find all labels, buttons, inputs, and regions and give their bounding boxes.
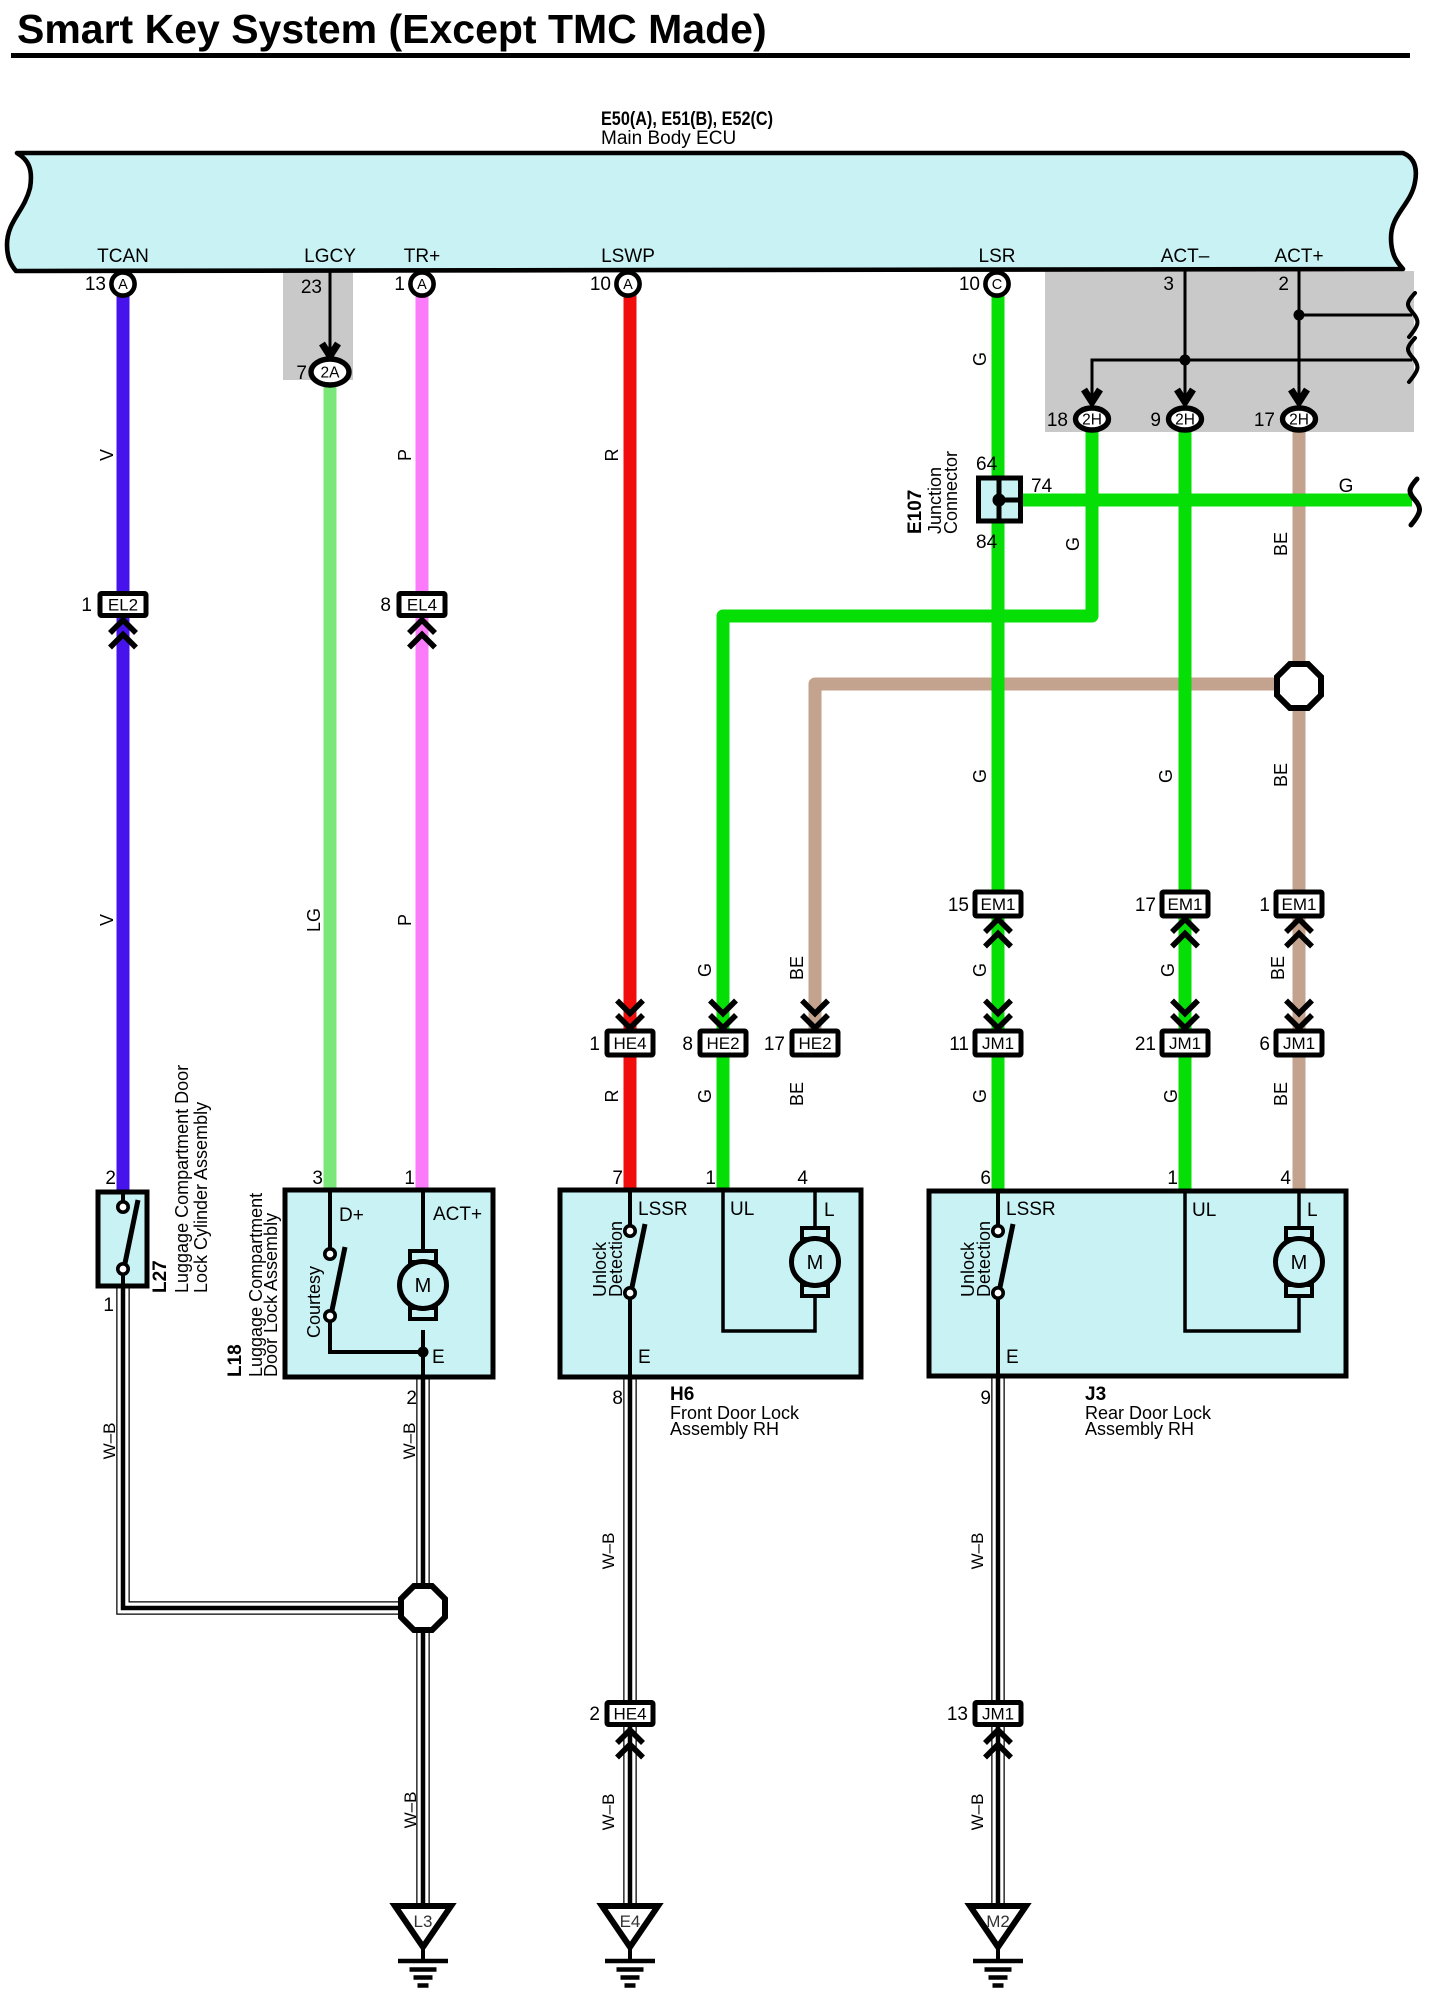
connector pin 13 circle A [111,272,134,295]
svg-text:2: 2 [589,1704,600,1725]
wire W-B from L18 through splice to ground L3 [416,1377,430,1905]
wire G LSR from ECU through E107 to J3 pin 6 [992,292,1005,1190]
ground L3 [395,1906,451,1947]
L18 motor leads [421,1192,425,1251]
svg-text:18: 18 [1047,410,1068,431]
svg-text:EL2: EL2 [108,596,138,615]
component L27 Luggage Compartment Door Lock Cylinder Assembly [98,1192,147,1286]
svg-text:G: G [1161,1089,1181,1103]
svg-text:Detection: Detection [606,1221,626,1297]
motor M in L18 [410,1251,436,1262]
svg-text:6: 6 [1259,1034,1270,1055]
svg-text:7: 7 [612,1168,623,1189]
gray highlight zone (ACT actuator branch) [1045,271,1414,432]
svg-text:23: 23 [301,277,322,298]
svg-text:G: G [970,352,990,366]
line ACT+ branch to page edge [1299,314,1412,317]
svg-text:1: 1 [404,1168,415,1189]
svg-text:21: 21 [1135,1034,1156,1055]
J3 motor lead [1297,1193,1301,1228]
svg-text:2: 2 [1278,274,1289,295]
svg-text:L27: L27 [150,1260,171,1293]
svg-text:ACT+: ACT+ [433,1204,482,1225]
unlock detection switch in J3 [998,1224,1013,1297]
svg-text:BE: BE [1271,1082,1291,1106]
svg-text:EM1: EM1 [981,895,1016,914]
svg-text:W–B: W–B [599,1794,618,1831]
junction node on ACT+ branch [1294,310,1305,321]
svg-text:13: 13 [85,274,106,295]
svg-text:1: 1 [394,274,405,295]
svg-text:W–B: W–B [100,1423,119,1460]
svg-text:Courtesy: Courtesy [304,1266,324,1338]
svg-text:E: E [638,1347,651,1368]
svg-text:BE: BE [1271,763,1291,787]
wire W-B from H6 through HE4 to ground E4 [623,1377,637,1905]
svg-text:2: 2 [406,1388,417,1409]
connector pin 10 circle A [616,272,639,295]
svg-text:UL: UL [730,1199,754,1220]
svg-text:LSWP: LSWP [601,246,655,267]
connector JM1 pin 6 [1286,1015,1312,1028]
wire P TR+ from ECU to L18 ACT+ [416,292,429,1189]
wire G junction connector 74 branch to page edge [1020,494,1412,507]
svg-text:Assembly RH: Assembly RH [670,1419,779,1439]
svg-text:6: 6 [980,1168,991,1189]
svg-text:3: 3 [1163,274,1174,295]
svg-text:W–B: W–B [968,1794,987,1831]
connector JM1 pin 11 [985,1015,1011,1028]
connector HE4 pin 2 [607,1703,653,1725]
svg-text:EL4: EL4 [407,596,437,615]
connector HE2 pin 8 [710,1015,736,1028]
svg-text:9: 9 [1150,410,1161,431]
svg-text:17: 17 [1135,895,1156,916]
line ACT branch to 2H pin 18 [1092,360,1412,403]
svg-text:A: A [417,277,427,293]
courtesy switch in L18 [330,1247,345,1320]
arrow into 2A [322,344,338,357]
svg-text:JM1: JM1 [1283,1034,1315,1053]
ground M2 [970,1906,1026,1947]
svg-text:A: A [623,277,633,293]
svg-text:G: G [970,1089,990,1103]
svg-text:LG: LG [304,908,324,932]
splice octagon S2 (W-B) [401,1586,445,1630]
connector pin 1 circle A [410,272,433,295]
ground E4 [602,1906,658,1947]
L18 courtesy switch lead [328,1192,332,1249]
svg-text:L3: L3 [414,1912,433,1931]
svg-text:E4: E4 [620,1912,641,1931]
page continuation squiggle on G branch [1410,479,1420,525]
svg-text:7: 7 [296,363,307,384]
connector pin 10 circle C [985,272,1008,295]
svg-text:TR+: TR+ [404,246,440,267]
svg-text:2H: 2H [1082,412,1102,429]
svg-text:V: V [97,449,117,461]
svg-text:64: 64 [976,454,998,475]
svg-text:A: A [118,277,128,293]
svg-text:LSR: LSR [979,246,1016,267]
line ACT+ pin 2 drop [1298,271,1301,403]
svg-text:R: R [602,1090,622,1103]
svg-text:L18: L18 [225,1344,246,1377]
svg-text:G: G [1063,537,1083,551]
svg-text:JM1: JM1 [1169,1034,1201,1053]
svg-text:3: 3 [312,1168,323,1189]
svg-text:UL: UL [1192,1200,1216,1221]
connector JM1 pin 21 [1172,1015,1198,1028]
svg-text:G: G [1339,476,1354,497]
Main Body ECU band E50(A) E51(B) E52(C) [7,153,1416,271]
svg-text:1: 1 [1167,1168,1178,1189]
svg-text:1: 1 [705,1168,716,1189]
connector EM1 pin 17 [1162,892,1208,916]
J3 unlock detection switch lead [996,1193,1000,1226]
connector oval 2H pin 9 [1169,408,1202,430]
svg-text:TCAN: TCAN [97,246,149,267]
H6 UL internal wiring [723,1192,815,1331]
svg-text:E50(A), E51(B), E52(C): E50(A), E51(B), E52(C) [601,109,773,130]
svg-text:2H: 2H [1175,412,1195,429]
svg-text:EM1: EM1 [1282,895,1317,914]
svg-text:Lock Cylinder Assembly: Lock Cylinder Assembly [191,1102,211,1293]
motor M in J3 [1286,1228,1312,1239]
svg-text:J3: J3 [1085,1384,1106,1405]
svg-text:8: 8 [380,595,391,616]
svg-text:W–B: W–B [968,1533,987,1570]
svg-text:10: 10 [959,274,980,295]
svg-text:HE4: HE4 [613,1034,646,1053]
H6 unlock detection switch lead [628,1192,632,1226]
svg-text:G: G [695,963,715,977]
svg-text:LSSR: LSSR [638,1199,688,1220]
svg-text:Connector: Connector [941,451,961,534]
svg-text:E: E [432,1347,445,1368]
svg-text:EM1: EM1 [1168,895,1203,914]
svg-text:Assembly RH: Assembly RH [1085,1419,1194,1439]
J3 UL internal wiring [1185,1193,1299,1331]
svg-text:Main Body ECU: Main Body ECU [601,128,736,149]
svg-text:10: 10 [590,274,611,295]
svg-text:BE: BE [787,1082,807,1106]
svg-text:2H: 2H [1289,412,1309,429]
svg-text:LSSR: LSSR [1006,1199,1056,1220]
svg-text:1: 1 [81,595,92,616]
svg-text:M: M [1291,1252,1308,1274]
svg-text:BE: BE [787,956,807,980]
page continuation squiggle lower [1408,338,1418,382]
svg-text:74: 74 [1031,476,1053,497]
svg-text:17: 17 [1254,410,1275,431]
svg-text:2: 2 [105,1168,116,1189]
svg-text:M: M [807,1252,824,1274]
connector HE4 pin 1 [617,1015,643,1028]
svg-text:17: 17 [764,1034,785,1055]
arrow into 2H pin 18 [1084,390,1100,403]
svg-text:G: G [970,963,990,977]
wire W-B from J3 through JM1 to ground M2 [991,1376,1005,1905]
arrow into 2H pin 9 [1177,390,1193,403]
connector EL4 pin 8 [399,594,445,616]
svg-text:1: 1 [103,1295,114,1316]
wire G from 2H pin 18 to HE2 pin 8 (L-shape) [723,430,1092,1032]
svg-text:1: 1 [589,1034,600,1055]
splice octagon S1 (BE) [1277,664,1321,708]
svg-text:W–B: W–B [401,1792,420,1829]
wire LG from 2A connector to L18 D+ [324,384,337,1189]
svg-text:C: C [992,277,1002,293]
svg-text:W–B: W–B [599,1533,618,1570]
svg-text:G: G [1158,963,1178,977]
connector EL2 pin 1 [100,594,146,616]
connector EM1 pin 15 [975,892,1021,916]
svg-text:ACT+: ACT+ [1274,246,1323,267]
wire G from 2H pin 9 to J3 UL [1179,430,1192,1190]
svg-text:Luggage Compartment Door: Luggage Compartment Door [172,1065,192,1293]
wire BE vertical from 2H pin 17 to J3 pin 4 [1293,430,1306,1190]
svg-text:13: 13 [947,1704,968,1725]
line LGCY pin 23 drop [329,272,332,350]
wire W-B from L27 to splice octagon [123,1286,420,1608]
node E in L18 [418,1347,429,1358]
svg-text:HE2: HE2 [706,1034,739,1053]
svg-text:JM1: JM1 [982,1034,1014,1053]
unlock detection switch in H6 [630,1224,645,1297]
gray highlight zone (LGCY branch) [283,272,353,380]
svg-text:E: E [1006,1347,1019,1368]
svg-text:1: 1 [1259,895,1270,916]
wire BE horizontal from splice octagon to HE2 column [815,684,1299,1032]
H6 motor lead [813,1192,817,1228]
wire G below HE2 pin 8 into H6 UL [717,1052,730,1189]
svg-text:BE: BE [1268,956,1288,980]
connector JM1 pin 13 [975,1703,1021,1725]
svg-text:V: V [97,914,117,926]
svg-text:11: 11 [949,1034,969,1055]
svg-text:2A: 2A [321,365,341,382]
svg-text:8: 8 [612,1388,623,1409]
svg-text:Door Lock Assembly: Door Lock Assembly [261,1213,281,1377]
svg-text:4: 4 [797,1168,808,1189]
svg-text:R: R [602,449,622,462]
svg-text:BE: BE [1271,532,1291,556]
junction connector E107 [979,478,1021,521]
connector HE2 pin 17 [802,1015,828,1028]
svg-text:84: 84 [976,532,998,553]
svg-text:W–B: W–B [400,1423,419,1460]
svg-text:LGCY: LGCY [304,246,356,267]
wire R LSWP from ECU to H6 LSSR [624,292,637,1189]
arrow into 2H pin 17 [1291,390,1307,403]
svg-text:4: 4 [1280,1168,1291,1189]
svg-text:P: P [395,449,415,461]
svg-text:L: L [1307,1200,1318,1221]
wire V TCAN from ECU to L27 [117,292,130,1191]
svg-text:P: P [395,914,415,926]
component J3 Rear Door Lock Assembly RH [929,1191,1346,1376]
svg-text:M: M [415,1275,432,1297]
svg-text:H6: H6 [670,1384,694,1405]
svg-text:9: 9 [980,1388,991,1409]
svg-text:Smart Key System (Except TMC M: Smart Key System (Except TMC Made) [17,6,767,52]
svg-text:M2: M2 [986,1912,1010,1931]
svg-text:8: 8 [682,1034,693,1055]
connector oval 2H pin 17 [1283,408,1316,430]
page continuation squiggle upper [1408,293,1418,337]
svg-text:G: G [970,769,990,783]
svg-text:L: L [824,1200,835,1221]
svg-text:G: G [1156,769,1176,783]
junction node on ACT- line [1180,355,1191,366]
svg-text:15: 15 [948,895,969,916]
svg-text:G: G [695,1089,715,1103]
svg-text:HE2: HE2 [798,1034,831,1053]
connector oval 2H pin 18 [1076,408,1109,430]
connector oval 2A pin 7 [311,359,349,385]
svg-text:D+: D+ [339,1205,364,1226]
line ACT- pin 3 drop [1184,271,1187,403]
svg-text:Detection: Detection [974,1221,994,1297]
svg-text:JM1: JM1 [982,1705,1014,1724]
component L18 Luggage Compartment Door Lock Assembly [285,1190,493,1377]
connector EM1 pin 1 [1276,892,1322,916]
svg-text:ACT–: ACT– [1161,246,1210,267]
svg-text:HE4: HE4 [613,1705,646,1724]
switch in L27 [123,1200,138,1273]
svg-text:E107: E107 [905,490,926,534]
component H6 Front Door Lock Assembly RH [560,1190,861,1377]
motor M in H6 [802,1228,828,1239]
